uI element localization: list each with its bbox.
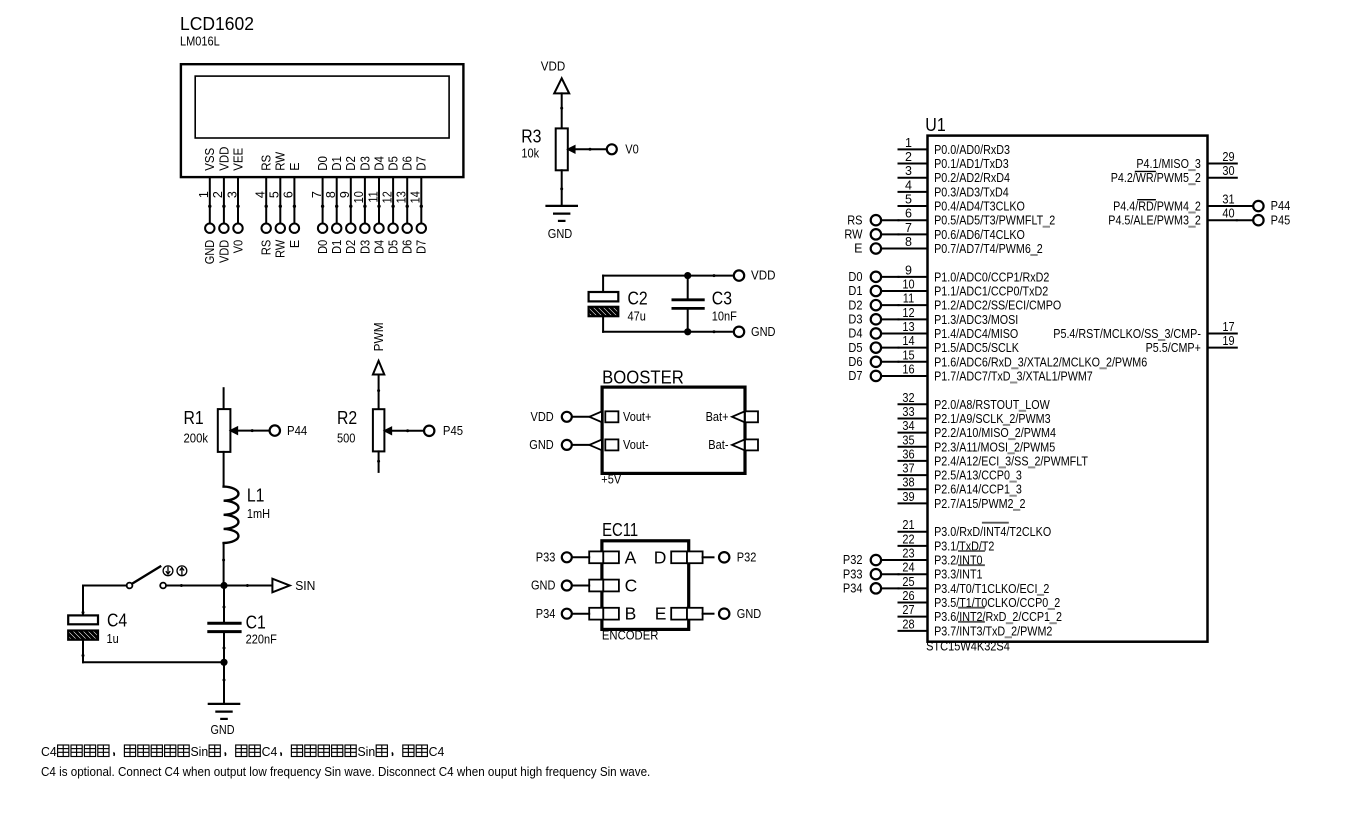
svg-text:D3: D3 <box>358 240 372 254</box>
U1 pin 37 stub <box>899 474 928 476</box>
svg-text:2: 2 <box>211 191 225 198</box>
svg-text:C4: C4 <box>262 744 278 759</box>
U1 pin 31 stub <box>1208 205 1237 207</box>
wire D1 <box>881 290 898 292</box>
svg-text:D1: D1 <box>848 284 862 298</box>
LCD pin 14 end mark <box>420 205 423 208</box>
BOOSTER pin arrow Vout- <box>589 440 602 451</box>
svg-text:21: 21 <box>902 518 914 532</box>
terminal V0 <box>607 144 617 154</box>
svg-text:500: 500 <box>337 431 355 445</box>
wire pin D to P32 <box>703 556 714 558</box>
wire C1 to bottom rail <box>223 632 225 663</box>
svg-text:12: 12 <box>902 306 914 320</box>
svg-text:D4: D4 <box>848 327 862 341</box>
note text line chinese <box>58 745 428 757</box>
wire R2 wiper to P45 <box>391 430 424 432</box>
wire GND to pin C <box>572 585 589 587</box>
svg-text:GND: GND <box>203 240 217 264</box>
U1 pin 25 stub <box>899 587 928 589</box>
svg-text:RW: RW <box>274 152 288 171</box>
terminal GND <box>562 440 572 450</box>
U1 pin 22 stub <box>899 545 928 547</box>
wire RS <box>881 219 898 221</box>
svg-text:P4.1/MISO_3: P4.1/MISO_3 <box>1136 157 1201 171</box>
U1 pin 10 stub <box>899 290 928 292</box>
svg-text:12: 12 <box>380 191 394 203</box>
terminal GND <box>719 609 729 619</box>
LCD pin 8 wire <box>336 177 338 223</box>
svg-text:P4.2/WR/PWM5_2: P4.2/WR/PWM5_2 <box>1111 171 1201 185</box>
EC11 body <box>602 541 689 630</box>
LCD pin 6 terminal <box>290 224 299 233</box>
svg-text:U1: U1 <box>925 115 945 135</box>
svg-text:D1: D1 <box>330 240 344 254</box>
svg-text:9: 9 <box>338 191 352 198</box>
inductor L1 <box>224 487 239 543</box>
wire D4 <box>881 332 898 334</box>
svg-text:33: 33 <box>902 405 914 419</box>
svg-text:2: 2 <box>905 150 912 164</box>
svg-text:P0.6/AD6/T4CLKO: P0.6/AD6/T4CLKO <box>934 228 1025 242</box>
svg-text:VDD: VDD <box>751 269 776 283</box>
svg-text:10: 10 <box>352 191 366 203</box>
svg-text:GND: GND <box>211 723 235 737</box>
svg-text:Bat+: Bat+ <box>706 410 729 424</box>
LCD pin 4 wire <box>265 177 267 223</box>
svg-text:23: 23 <box>902 547 914 561</box>
svg-text:P4.4/RD/PWM4_2: P4.4/RD/PWM4_2 <box>1113 200 1201 214</box>
wire pin E to GND <box>703 613 714 615</box>
wire P34 to pin B <box>572 613 589 615</box>
EC11 pin pad inner E <box>671 608 687 620</box>
svg-text:38: 38 <box>902 476 914 490</box>
U1 pin 14 stub <box>899 347 928 349</box>
svg-text:28: 28 <box>902 617 914 631</box>
wire P45 <box>1237 219 1253 221</box>
terminal P34 <box>871 583 881 593</box>
U1 pin 2 stub <box>899 163 928 165</box>
terminal VDD <box>734 270 744 280</box>
svg-text:P1.3/ADC3/MOSI: P1.3/ADC3/MOSI <box>934 313 1018 327</box>
svg-text:D2: D2 <box>848 298 862 312</box>
switch contact left <box>127 583 133 589</box>
svg-text:GND: GND <box>531 579 555 593</box>
svg-text:D0: D0 <box>316 240 330 254</box>
power arrow VDD <box>554 78 569 93</box>
LCD pin 11 wire <box>378 177 380 223</box>
svg-text:8: 8 <box>324 191 338 198</box>
LCD pin 3 end mark <box>236 205 239 208</box>
svg-text:B: B <box>625 604 637 624</box>
svg-text:P2.2/A10/MISO_2/PWM4: P2.2/A10/MISO_2/PWM4 <box>934 426 1056 440</box>
U1 pin 4 stub <box>899 191 928 193</box>
EC11 pin pad outer D <box>687 551 703 563</box>
LCD pin 2 wire <box>223 177 225 223</box>
svg-text:P45: P45 <box>1271 213 1291 227</box>
svg-text:P0.7/AD7/T4/PWM6_2: P0.7/AD7/T4/PWM6_2 <box>934 242 1043 256</box>
U1 pin 27 stub <box>899 616 928 618</box>
terminal P44 <box>270 425 280 435</box>
LCD pin 14 wire <box>420 177 422 223</box>
svg-text:P3.5/T1/T0CLKO/CCP0_2: P3.5/T1/T0CLKO/CCP0_2 <box>934 596 1060 610</box>
wire VDD rail <box>603 275 732 277</box>
LCD1602 body outline <box>181 64 464 177</box>
svg-text:Vout+: Vout+ <box>623 410 651 424</box>
svg-text:30: 30 <box>1222 164 1234 178</box>
LCD pin 6 end mark <box>293 205 296 208</box>
wire C4 to bottom rail <box>82 640 84 663</box>
svg-text:5: 5 <box>905 193 912 207</box>
svg-text:C1: C1 <box>246 612 266 632</box>
LCD pin 4 end mark <box>265 205 268 208</box>
ground below R3 <box>547 206 577 221</box>
svg-text:P1.1/ADC1/CCP0/TxD2: P1.1/ADC1/CCP0/TxD2 <box>934 285 1048 299</box>
svg-text:P1.0/ADC0/CCP1/RxD2: P1.0/ADC0/CCP1/RxD2 <box>934 270 1049 284</box>
U1 pin 30 stub <box>1208 177 1237 179</box>
U1 pin 36 stub <box>899 460 928 462</box>
LCD pin 9 end mark <box>349 205 352 208</box>
LCD pin 12 end mark <box>391 205 394 208</box>
R1 wiper arrowhead <box>230 427 237 434</box>
potentiometer R2 body <box>373 409 385 451</box>
svg-text:P0.0/AD0/RxD3: P0.0/AD0/RxD3 <box>934 143 1010 157</box>
U1 pin 9 stub <box>899 276 928 278</box>
wire GND to Vout- <box>572 444 590 446</box>
U1 pin 1 stub <box>899 148 928 150</box>
svg-text:C2: C2 <box>628 289 648 309</box>
switch lever <box>132 567 160 584</box>
svg-text:7: 7 <box>310 191 324 198</box>
svg-text:D7: D7 <box>848 369 862 383</box>
capacitor C2 positive plate <box>589 292 619 301</box>
potentiometer R1 body <box>218 409 231 452</box>
wire D6 <box>881 361 898 363</box>
svg-text:VDD: VDD <box>541 59 566 73</box>
svg-text:R1: R1 <box>184 408 204 428</box>
terminal P32 <box>719 552 729 562</box>
wire bottom rail <box>83 661 224 663</box>
terminal D0 <box>871 272 881 282</box>
svg-text:GND: GND <box>529 438 553 452</box>
svg-text:200k: 200k <box>184 432 209 446</box>
svg-text:D3: D3 <box>358 156 372 171</box>
U1 pin 28 stub <box>899 630 928 632</box>
terminal D2 <box>871 300 881 310</box>
svg-text:VSS: VSS <box>203 148 217 171</box>
wire GND rail <box>603 331 732 333</box>
BOOSTER pin pad Bat+ <box>745 411 758 422</box>
capacitor C4 positive plate <box>68 615 98 624</box>
LCD display window <box>195 76 449 138</box>
terminal P45 <box>1253 215 1263 225</box>
svg-text:P2.1/A9/SCLK_2/PWM3: P2.1/A9/SCLK_2/PWM3 <box>934 412 1051 426</box>
wire node to SIN <box>224 585 272 587</box>
svg-text:P1.2/ADC2/SS/ECI/CMPO: P1.2/ADC2/SS/ECI/CMPO <box>934 299 1061 313</box>
svg-text:RW: RW <box>274 240 288 258</box>
EC11 pin pad outer E <box>687 608 703 620</box>
wire VDD to Vout+ <box>572 416 590 418</box>
svg-text:ENCODER: ENCODER <box>602 629 659 643</box>
svg-text:P3.4/T0/T1CLKO/ECI_2: P3.4/T0/T1CLKO/ECI_2 <box>934 582 1049 596</box>
svg-text:6: 6 <box>282 191 296 198</box>
svg-text:VDD: VDD <box>217 240 231 263</box>
switch actuator symbol down <box>163 566 173 576</box>
LCD pin 10 end mark <box>363 205 366 208</box>
svg-text:E: E <box>854 242 862 256</box>
LCD pin 1 terminal <box>205 224 214 233</box>
svg-text:29: 29 <box>1222 150 1234 164</box>
terminal RS <box>871 215 881 225</box>
svg-text:STC15W4K32S4: STC15W4K32S4 <box>926 640 1010 654</box>
EC11 pin pad inner D <box>671 551 687 563</box>
U1 pin 32 stub <box>899 403 928 405</box>
wire E <box>881 248 898 250</box>
IC U1 body <box>928 136 1208 642</box>
wire PWM to R2 <box>378 375 380 410</box>
svg-text:V0: V0 <box>625 143 639 157</box>
LCD pin 9 terminal <box>346 224 355 233</box>
svg-text:34: 34 <box>902 419 914 433</box>
wire R3 to ground <box>561 170 563 205</box>
U1 pin 35 stub <box>899 446 928 448</box>
svg-text:R3: R3 <box>521 126 541 146</box>
U1 pin 11 stub <box>899 304 928 306</box>
svg-text:26: 26 <box>902 589 914 603</box>
LCD pin 7 terminal <box>318 224 327 233</box>
svg-text:LCD1602: LCD1602 <box>180 14 254 34</box>
svg-text:P2.5/A13/CCP0_3: P2.5/A13/CCP0_3 <box>934 469 1022 483</box>
svg-text:E: E <box>655 604 667 624</box>
wire R1 wiper to P44 <box>237 430 269 432</box>
svg-text:D0: D0 <box>848 270 862 284</box>
LCD pin 10 terminal <box>360 224 369 233</box>
LCD pin 1 end mark <box>208 205 211 208</box>
svg-text:RS: RS <box>260 240 274 255</box>
LCD pin 9 wire <box>350 177 352 223</box>
wire switch to C4 branch <box>83 585 127 587</box>
svg-text:7: 7 <box>905 221 912 235</box>
R2 wiper arrowhead <box>384 427 391 434</box>
wire C2 bottom <box>602 316 604 332</box>
svg-text:P5.5/CMP+: P5.5/CMP+ <box>1146 341 1201 355</box>
LCD pin 8 end mark <box>335 205 338 208</box>
wire node to C1 <box>223 586 225 622</box>
svg-text:RS: RS <box>847 213 862 227</box>
potentiometer R3 body <box>556 128 568 170</box>
terminal D1 <box>871 286 881 296</box>
svg-text:P2.4/A12/ECI_3/SS_2/PWMFLT: P2.4/A12/ECI_3/SS_2/PWMFLT <box>934 454 1088 468</box>
svg-text:D4: D4 <box>372 156 386 171</box>
svg-text:D6: D6 <box>401 156 415 171</box>
svg-text:C4: C4 <box>41 744 57 759</box>
svg-text:35: 35 <box>902 433 914 447</box>
svg-text:5: 5 <box>268 191 282 198</box>
svg-text:D3: D3 <box>848 313 862 327</box>
capacitor C3 bottom plate <box>673 307 703 310</box>
svg-text:P44: P44 <box>287 424 307 438</box>
terminal RW <box>871 229 881 239</box>
terminal VDD <box>562 412 572 422</box>
svg-text:P3.7/INT3/TxD_2/PWM2: P3.7/INT3/TxD_2/PWM2 <box>934 624 1052 638</box>
svg-text:P0.2/AD2/RxD4: P0.2/AD2/RxD4 <box>934 171 1010 185</box>
wire stub above R1 <box>223 388 225 409</box>
wire P33 <box>881 573 898 575</box>
ground main <box>209 704 239 719</box>
wire to C3 top <box>687 276 689 300</box>
svg-text:C3: C3 <box>712 289 732 309</box>
svg-text:D7: D7 <box>415 156 429 171</box>
svg-text:P44: P44 <box>1271 199 1291 213</box>
svg-text:P0.1/AD1/TxD3: P0.1/AD1/TxD3 <box>934 157 1009 171</box>
BOOSTER pin arrow Vout+ <box>589 411 602 422</box>
svg-text:P5.4/RST/MCLKO/SS_3/CMP-: P5.4/RST/MCLKO/SS_3/CMP- <box>1053 327 1201 341</box>
svg-text:P33: P33 <box>843 567 863 581</box>
wire D3 <box>881 318 898 320</box>
terminal D5 <box>871 342 881 352</box>
svg-text:P0.3/AD3/TxD4: P0.3/AD3/TxD4 <box>934 185 1009 199</box>
svg-text:8: 8 <box>905 235 912 249</box>
svg-text:31: 31 <box>1222 193 1234 207</box>
EC11 pin pad outer C <box>589 580 603 592</box>
switch actuator symbol up <box>177 566 187 576</box>
svg-text:GND: GND <box>548 227 573 241</box>
svg-text:P3.6/INT2/RxD_2/CCP1_2: P3.6/INT2/RxD_2/CCP1_2 <box>934 610 1062 624</box>
svg-text:9: 9 <box>905 263 912 277</box>
U1 pin 24 stub <box>899 573 928 575</box>
capacitor C1 top plate <box>209 622 240 625</box>
terminal P44 <box>1253 201 1263 211</box>
wire D2 <box>881 304 898 306</box>
LCD pin 8 terminal <box>332 224 341 233</box>
U1 pin 7 stub <box>899 233 928 235</box>
pin end tick marks <box>560 107 563 110</box>
BOOSTER pin pad Vout- <box>605 439 618 450</box>
svg-text:36: 36 <box>902 447 914 461</box>
EC11 pin pad inner C <box>603 580 619 592</box>
svg-text:P1.4/ADC4/MISO: P1.4/ADC4/MISO <box>934 327 1018 341</box>
wire P34 <box>881 587 898 589</box>
svg-text:P2.3/A11/MOSI_2/PWM5: P2.3/A11/MOSI_2/PWM5 <box>934 440 1055 454</box>
terminal P32 <box>871 555 881 565</box>
LCD pin 13 terminal <box>403 224 412 233</box>
junction node SIN <box>220 582 227 589</box>
svg-text:32: 32 <box>902 391 914 405</box>
wire switch to node <box>166 585 224 587</box>
svg-text:P1.5/ADC5/SCLK: P1.5/ADC5/SCLK <box>934 341 1019 355</box>
svg-text:14: 14 <box>409 191 423 203</box>
junction GND rail <box>684 328 691 335</box>
U1 pin 12 stub <box>899 318 928 320</box>
svg-text:P3.3/INT1: P3.3/INT1 <box>934 568 982 582</box>
LCD pin 3 terminal <box>233 224 242 233</box>
terminal D3 <box>871 314 881 324</box>
U1 pin 40 stub <box>1208 219 1237 221</box>
LCD pin 13 end mark <box>406 205 409 208</box>
wire VDD to R3 <box>561 93 563 128</box>
LCD pin 7 wire <box>322 177 324 223</box>
terminal P33 <box>871 569 881 579</box>
BOOSTER pin pad Vout+ <box>605 411 618 422</box>
wire P44 <box>1237 205 1253 207</box>
svg-text:D: D <box>654 547 667 567</box>
signal arrow PWM <box>373 361 384 375</box>
svg-text:22: 22 <box>902 532 914 546</box>
U1 pin 17 stub <box>1208 332 1237 334</box>
U1 pin 26 stub <box>899 602 928 604</box>
svg-text:P1.7/ADC7/TxD_3/XTAL1/PWM7: P1.7/ADC7/TxD_3/XTAL1/PWM7 <box>934 369 1093 383</box>
svg-text:P32: P32 <box>843 553 863 567</box>
LCD pin 10 wire <box>364 177 366 223</box>
LCD pin 4 terminal <box>262 224 271 233</box>
svg-text:D2: D2 <box>344 156 358 171</box>
wire D0 <box>881 276 898 278</box>
BOOSTER body <box>602 387 745 473</box>
svg-text:RW: RW <box>844 228 862 242</box>
LCD pin 5 end mark <box>279 205 282 208</box>
LCD pin 7 end mark <box>321 205 324 208</box>
svg-text:D1: D1 <box>330 156 344 171</box>
svg-text:C4: C4 <box>429 744 445 759</box>
svg-text:V0: V0 <box>231 240 245 254</box>
svg-text:Vout-: Vout- <box>623 438 649 452</box>
svg-text:P2.6/A14/CCP1_3: P2.6/A14/CCP1_3 <box>934 483 1022 497</box>
wire D7 <box>881 375 898 377</box>
svg-text:1u: 1u <box>107 632 119 646</box>
svg-text:D2: D2 <box>344 240 358 254</box>
LCD pin 14 terminal <box>417 224 426 233</box>
svg-text:A: A <box>625 547 637 567</box>
LCD pin 5 terminal <box>276 224 285 233</box>
EC11 pin pad outer A <box>589 551 603 563</box>
U1 pin 21 stub <box>899 531 928 533</box>
U1 pin 23 stub <box>899 559 928 561</box>
wire R3 wiper to V0 <box>575 148 607 150</box>
terminal P33 <box>562 552 572 562</box>
capacitor C2 negative plate <box>579 306 635 317</box>
U1 pin 6 stub <box>899 219 928 221</box>
svg-text:17: 17 <box>1222 320 1234 334</box>
svg-text:10nF: 10nF <box>712 309 737 323</box>
U1 pin 15 stub <box>899 361 928 363</box>
junction bottom rail <box>220 659 227 666</box>
U1 pin 13 stub <box>899 332 928 334</box>
svg-text:D4: D4 <box>372 240 386 254</box>
terminal GND <box>562 581 572 591</box>
svg-text:39: 39 <box>902 490 914 504</box>
U1 pin 38 stub <box>899 488 928 490</box>
wire D5 <box>881 347 898 349</box>
EC11 pin pad inner B <box>603 608 619 620</box>
terminal GND <box>734 327 744 337</box>
svg-text:40: 40 <box>1222 207 1234 221</box>
wire down to C4 <box>82 586 84 616</box>
terminal D6 <box>871 357 881 367</box>
svg-text:P2.0/A8/RSTOUT_LOW: P2.0/A8/RSTOUT_LOW <box>934 398 1050 412</box>
terminal P34 <box>562 609 572 619</box>
svg-text:19: 19 <box>1222 334 1234 348</box>
svg-text:P2.7/A15/PWM2_2: P2.7/A15/PWM2_2 <box>934 497 1025 511</box>
svg-text:P45: P45 <box>443 424 463 438</box>
terminal D7 <box>871 371 881 381</box>
capacitor C4 negative plate <box>59 630 115 641</box>
svg-text:13: 13 <box>395 191 409 203</box>
BOOSTER pin arrow Bat- <box>732 440 745 451</box>
junction VDD rail <box>684 272 691 279</box>
svg-text:P4.5/ALE/PWM3_2: P4.5/ALE/PWM3_2 <box>1108 214 1201 228</box>
svg-text:D7: D7 <box>415 240 429 254</box>
svg-text:P32: P32 <box>737 551 757 565</box>
